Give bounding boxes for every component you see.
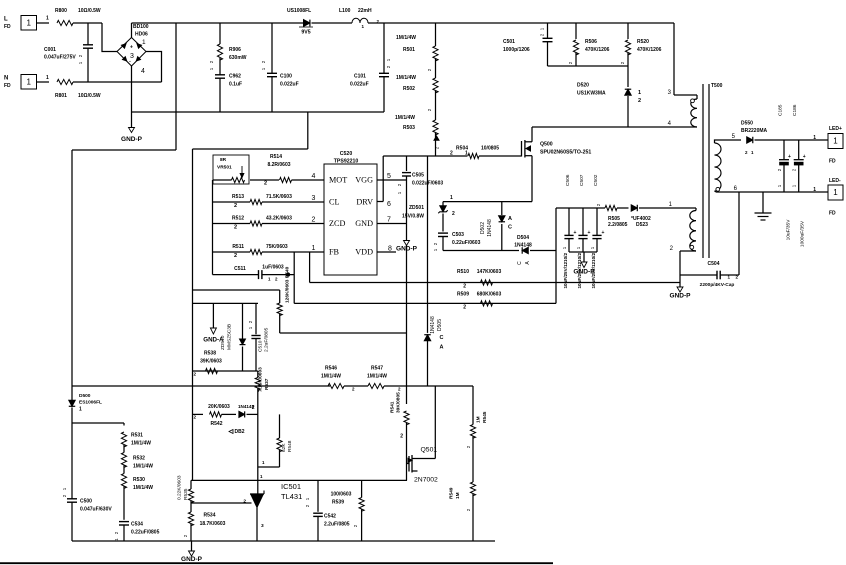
- svg-text:0.047uF/275V: 0.047uF/275V: [44, 55, 76, 61]
- svg-text:15V/0.8W: 15V/0.8W: [402, 214, 424, 220]
- svg-text:3: 3: [261, 523, 264, 529]
- svg-text:2.2uF/0805: 2.2uF/0805: [324, 522, 350, 528]
- svg-text:R512: R512: [232, 216, 244, 222]
- svg-text:75K/0603: 75K/0603: [266, 244, 288, 250]
- svg-text:39K/0805: 39K/0805: [396, 392, 402, 413]
- svg-text:1: 1: [142, 39, 146, 46]
- svg-text:10Ω/0.5W: 10Ω/0.5W: [78, 8, 101, 14]
- svg-text:DB2: DB2: [235, 429, 245, 435]
- svg-text:2: 2: [264, 181, 267, 187]
- svg-text:R531: R531: [131, 433, 143, 439]
- svg-text:C542: C542: [324, 514, 336, 520]
- svg-text:2.2uF/0805: 2.2uF/0805: [264, 327, 270, 352]
- svg-text:7: 7: [387, 217, 391, 224]
- svg-text:2: 2: [234, 253, 237, 259]
- svg-text:22mH: 22mH: [358, 8, 372, 14]
- svg-text:1M/1/4W: 1M/1/4W: [133, 464, 153, 470]
- svg-text:1M/1/4W: 1M/1/4W: [321, 374, 341, 380]
- svg-text:126K/0603 R540: 126K/0603 R540: [285, 266, 291, 303]
- svg-text:2: 2: [234, 225, 237, 231]
- svg-text:R532: R532: [133, 456, 145, 462]
- svg-text:C534: C534: [131, 522, 143, 528]
- svg-text:1000p/1206: 1000p/1206: [503, 47, 530, 53]
- svg-text:0.1uF: 0.1uF: [229, 82, 242, 88]
- svg-text:FD: FD: [4, 24, 11, 30]
- svg-text:FB: FB: [329, 248, 340, 257]
- svg-text:1M/1/4W: 1M/1/4W: [367, 374, 387, 380]
- svg-text:C502: C502: [593, 174, 599, 186]
- svg-text:MOT: MOT: [329, 176, 347, 185]
- svg-text:L: L: [4, 17, 8, 23]
- svg-text:VDD: VDD: [355, 248, 373, 257]
- svg-text:Q501: Q501: [421, 447, 438, 454]
- svg-text:GND-P: GND-P: [573, 269, 595, 276]
- svg-text:8.2R/0603: 8.2R/0603: [267, 162, 290, 168]
- svg-text:DRV: DRV: [356, 198, 373, 207]
- svg-text:1: 1: [26, 78, 31, 87]
- svg-text:1uF/0603: 1uF/0603: [262, 265, 284, 271]
- svg-text:1: 1: [79, 407, 82, 413]
- svg-text:10uF/25V/1210/2: 10uF/25V/1210/2: [563, 253, 568, 289]
- svg-text:FD: FD: [4, 83, 11, 89]
- svg-text:10/0805: 10/0805: [481, 146, 499, 152]
- svg-text:GND-P: GND-P: [181, 556, 203, 563]
- svg-text:1M: 1M: [455, 492, 461, 499]
- svg-text:R800: R800: [55, 8, 67, 14]
- svg-text:+: +: [602, 230, 605, 236]
- svg-text:2: 2: [463, 284, 466, 290]
- svg-text:C501: C501: [503, 39, 515, 45]
- svg-text:10Ω/0.5W: 10Ω/0.5W: [78, 93, 101, 99]
- svg-text:7.15K/0603: 7.15K/0603: [258, 367, 264, 392]
- svg-text:R539: R539: [332, 500, 344, 506]
- svg-text:2: 2: [400, 434, 403, 440]
- svg-text:1: 1: [833, 188, 838, 197]
- svg-text:1: 1: [46, 75, 49, 81]
- svg-text:1: 1: [312, 245, 316, 252]
- svg-text:ZCD: ZCD: [329, 219, 345, 228]
- svg-text:R513: R513: [232, 194, 244, 200]
- svg-text:C504: C504: [708, 261, 720, 267]
- svg-text:1M/1/4W: 1M/1/4W: [396, 35, 416, 41]
- svg-text:1M/1/4W: 1M/1/4W: [395, 115, 415, 121]
- svg-text:LED-: LED-: [829, 178, 841, 184]
- svg-text:VGG: VGG: [355, 176, 373, 185]
- svg-text:C503: C503: [452, 232, 464, 238]
- svg-text:C520: C520: [340, 151, 353, 157]
- svg-text:D500: D500: [79, 393, 91, 399]
- svg-text:R520: R520: [637, 39, 649, 45]
- svg-text:C: C: [440, 335, 444, 341]
- svg-text:0.22uF/0603: 0.22uF/0603: [452, 240, 481, 246]
- svg-text:1M: 1M: [476, 416, 482, 423]
- svg-text:C505: C505: [412, 173, 424, 179]
- svg-text:FD: FD: [829, 159, 836, 165]
- svg-text:+: +: [574, 230, 577, 236]
- svg-text:1: 1: [26, 19, 31, 28]
- svg-text:D520: D520: [577, 83, 589, 89]
- svg-text:+: +: [130, 45, 133, 51]
- svg-text:R549: R549: [449, 487, 455, 499]
- svg-text:18.7K/0603: 18.7K/0603: [200, 521, 226, 527]
- svg-text:2: 2: [312, 217, 316, 224]
- svg-text:T500: T500: [711, 83, 723, 89]
- svg-text:C185: C185: [777, 104, 783, 116]
- svg-text:D504: D504: [517, 235, 529, 241]
- svg-text:2: 2: [463, 305, 466, 311]
- svg-text:1N4148: 1N4148: [430, 316, 436, 334]
- svg-text:L100: L100: [339, 8, 351, 14]
- svg-text:C: C: [508, 225, 512, 231]
- svg-text:2: 2: [452, 211, 455, 217]
- svg-text:1: 1: [638, 90, 641, 96]
- svg-text:C186: C186: [792, 104, 798, 116]
- svg-text:GND: GND: [355, 219, 373, 228]
- svg-text:1: 1: [450, 195, 453, 201]
- svg-text:R537: R537: [264, 378, 270, 390]
- svg-text:TL431: TL431: [281, 492, 302, 501]
- svg-text:+: +: [803, 154, 806, 160]
- svg-text:R509: R509: [457, 292, 469, 298]
- svg-text:1: 1: [813, 187, 816, 193]
- svg-text:SPU02N60S5/TO-251: SPU02N60S5/TO-251: [540, 150, 591, 156]
- svg-text:D523: D523: [636, 222, 648, 228]
- svg-text:R538: R538: [204, 351, 216, 357]
- svg-text:N: N: [4, 76, 8, 82]
- svg-text:470K/1206: 470K/1206: [637, 47, 662, 53]
- svg-text:8R: 8R: [220, 157, 227, 163]
- svg-text:R506: R506: [585, 39, 597, 45]
- svg-text:1M/1/4W: 1M/1/4W: [396, 75, 416, 81]
- svg-text:5: 5: [387, 173, 391, 180]
- svg-text:680K/0603: 680K/0603: [477, 292, 502, 298]
- svg-text:R542: R542: [211, 421, 223, 427]
- svg-text:1N4148: 1N4148: [487, 219, 493, 237]
- svg-text:R906: R906: [229, 47, 241, 53]
- svg-text:R503: R503: [403, 125, 415, 131]
- svg-text:0.22K/0603: 0.22K/0603: [177, 475, 183, 500]
- svg-text:R546: R546: [325, 366, 337, 372]
- svg-text:1: 1: [465, 151, 468, 157]
- svg-text:R535: R535: [183, 488, 189, 500]
- svg-text:3: 3: [312, 195, 316, 202]
- svg-text:C506: C506: [565, 174, 571, 186]
- svg-text:1M/1/4W: 1M/1/4W: [131, 441, 151, 447]
- svg-text:71.5K/0603: 71.5K/0603: [266, 194, 292, 200]
- svg-text:0.022uF: 0.022uF: [350, 82, 369, 88]
- svg-text:D505: D505: [437, 319, 443, 331]
- svg-text:R534: R534: [204, 513, 216, 519]
- svg-text:1: 1: [46, 16, 49, 22]
- svg-text:LED+: LED+: [829, 126, 842, 132]
- svg-text:US1008FL: US1008FL: [287, 8, 311, 14]
- svg-text:TPS92210: TPS92210: [334, 159, 359, 165]
- svg-text:2: 2: [234, 203, 237, 209]
- svg-text:VR501: VR501: [217, 165, 232, 171]
- svg-text:ZD510: ZD510: [220, 335, 226, 350]
- svg-text:US1KW3MA: US1KW3MA: [577, 91, 606, 97]
- svg-text:20K/0603: 20K/0603: [208, 404, 230, 410]
- svg-text:2200p/4KV-Cap: 2200p/4KV-Cap: [700, 282, 735, 288]
- svg-text:A: A: [508, 216, 512, 222]
- svg-text:9V5: 9V5: [301, 30, 310, 36]
- svg-text:R511: R511: [232, 244, 244, 250]
- svg-text:+: +: [588, 230, 591, 236]
- svg-text:BD100: BD100: [133, 24, 149, 30]
- svg-text:D550: D550: [741, 121, 753, 127]
- svg-text:C500: C500: [80, 499, 92, 505]
- svg-text:4: 4: [141, 68, 145, 75]
- svg-text:10uF/35V: 10uF/35V: [786, 219, 792, 241]
- svg-text:R510: R510: [457, 269, 469, 275]
- svg-text:R501: R501: [403, 47, 415, 53]
- svg-text:R548: R548: [287, 440, 293, 452]
- svg-text:6: 6: [387, 201, 391, 208]
- svg-text:R530: R530: [133, 477, 145, 483]
- svg-text:MMSZ5C3B: MMSZ5C3B: [227, 324, 233, 350]
- svg-text:100/0603: 100/0603: [331, 492, 352, 498]
- svg-text:ES1006FL: ES1006FL: [79, 400, 102, 406]
- svg-text:Q500: Q500: [540, 142, 553, 148]
- svg-text:R547: R547: [371, 366, 383, 372]
- svg-text:0.22uF/0805: 0.22uF/0805: [131, 530, 160, 536]
- svg-text:1000uF/35V: 1000uF/35V: [800, 220, 806, 247]
- svg-text:1M/1/4W: 1M/1/4W: [133, 485, 153, 491]
- svg-text:C962: C962: [229, 74, 241, 80]
- svg-text:1: 1: [833, 137, 838, 146]
- svg-text:+: +: [788, 154, 791, 160]
- svg-text:C510: C510: [258, 340, 264, 352]
- svg-text:0.022uF: 0.022uF: [280, 82, 299, 88]
- svg-text:2: 2: [252, 405, 255, 411]
- svg-text:FD: FD: [829, 211, 836, 217]
- svg-text:BR2220MA: BR2220MA: [741, 128, 768, 134]
- svg-text:R801: R801: [55, 93, 67, 99]
- svg-text:GND-P: GND-P: [121, 136, 143, 143]
- svg-text:62K: 62K: [281, 443, 287, 452]
- svg-text:2: 2: [638, 98, 641, 104]
- svg-text:0.047uF/630V: 0.047uF/630V: [80, 507, 112, 513]
- svg-text:C: C: [517, 261, 523, 265]
- svg-text:ZD501: ZD501: [409, 205, 424, 211]
- svg-text:A: A: [440, 345, 444, 351]
- svg-text:630mW: 630mW: [229, 55, 247, 61]
- svg-text:D502: D502: [480, 222, 486, 234]
- svg-text:2: 2: [450, 151, 453, 157]
- svg-text:C001: C001: [44, 47, 56, 53]
- svg-text:GND-P: GND-P: [670, 293, 692, 300]
- svg-text:CL: CL: [329, 198, 339, 207]
- svg-text:R541: R541: [390, 401, 396, 413]
- svg-text:C511: C511: [234, 266, 246, 272]
- svg-text:R545: R545: [482, 411, 488, 423]
- svg-text:IC501: IC501: [281, 482, 301, 491]
- svg-text:470K/1206: 470K/1206: [585, 47, 610, 53]
- svg-text:2.2/0805: 2.2/0805: [608, 222, 628, 228]
- svg-text:C101: C101: [354, 74, 366, 80]
- svg-text:2N7002: 2N7002: [414, 477, 438, 484]
- svg-text:4: 4: [312, 173, 316, 180]
- svg-text:R502: R502: [403, 86, 415, 92]
- svg-text:R514: R514: [270, 154, 282, 160]
- svg-text:39K/0603: 39K/0603: [200, 359, 222, 365]
- svg-text:C100: C100: [280, 74, 292, 80]
- svg-text:43.2K/0603: 43.2K/0603: [266, 216, 292, 222]
- svg-text:GND-P: GND-P: [396, 246, 418, 253]
- svg-text:C507: C507: [579, 174, 585, 186]
- svg-text:147K/0603: 147K/0603: [477, 269, 502, 275]
- svg-text:1: 1: [813, 135, 816, 141]
- svg-text:HD06: HD06: [135, 32, 148, 38]
- svg-text:1N4148: 1N4148: [514, 243, 532, 249]
